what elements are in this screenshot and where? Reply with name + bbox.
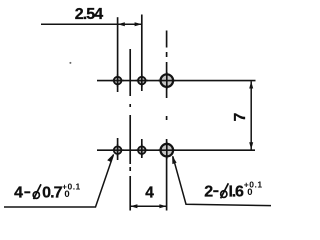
extension line through top hole H1 bbox=[117, 17, 119, 92]
small hole H1 top row bbox=[114, 77, 122, 85]
leader line for large holes label bbox=[173, 156, 271, 205]
phi symbol left bbox=[33, 184, 41, 199]
svg-text:2.54: 2.54 bbox=[75, 6, 104, 23]
vertical center line (dash-dot) through large holes bbox=[166, 31, 168, 211]
vertical center line (dash-dot) of pattern bbox=[129, 49, 131, 211]
vertical stub through bottom hole H5 bbox=[141, 139, 143, 158]
top row horizontal centerline bbox=[97, 80, 256, 82]
svg-text:7: 7 bbox=[232, 113, 249, 122]
small hole H4 bottom row bbox=[114, 146, 122, 154]
leader arrowhead to hole H4 bbox=[107, 154, 114, 163]
svg-text:0: 0 bbox=[247, 187, 252, 198]
leader line for small holes label bbox=[4, 155, 114, 208]
dimension 7 top arrowhead bbox=[249, 81, 253, 88]
dimension line 4 bbox=[130, 205, 166, 207]
bottom row horizontal centerline bbox=[97, 149, 255, 151]
dimension line 2.54 bbox=[41, 23, 142, 25]
svg-text:2: 2 bbox=[204, 183, 213, 200]
vertical stub through bottom hole H4 bbox=[117, 138, 119, 160]
scan speck bbox=[69, 62, 71, 64]
svg-text:0: 0 bbox=[64, 189, 69, 200]
svg-text:4: 4 bbox=[145, 184, 154, 201]
dimension 4 right arrowhead bbox=[159, 204, 166, 208]
large hole H6 bottom row bbox=[161, 144, 174, 157]
svg-text:I.6: I.6 bbox=[229, 183, 244, 200]
center cross lines redrawn over holes bbox=[112, 72, 176, 159]
leader arrowhead to hole H6 bbox=[172, 156, 177, 165]
svg-text:4: 4 bbox=[14, 184, 23, 201]
small hole H2 top row bbox=[138, 77, 146, 85]
small hole H5 bottom row bbox=[138, 146, 146, 154]
svg-text:0.7: 0.7 bbox=[42, 184, 63, 201]
dimension 2.54 right arrowhead bbox=[135, 22, 142, 26]
dimension 4 left arrowhead bbox=[130, 204, 137, 208]
extension line through top hole H2 bbox=[141, 15, 143, 92]
dimension 7 bottom arrowhead bbox=[249, 142, 253, 149]
phi symbol right bbox=[221, 183, 229, 198]
large hole H3 top row bbox=[161, 74, 174, 87]
dimension line 7 (vertical) bbox=[250, 81, 252, 149]
dimension 2.54 left arrowhead bbox=[118, 22, 125, 26]
